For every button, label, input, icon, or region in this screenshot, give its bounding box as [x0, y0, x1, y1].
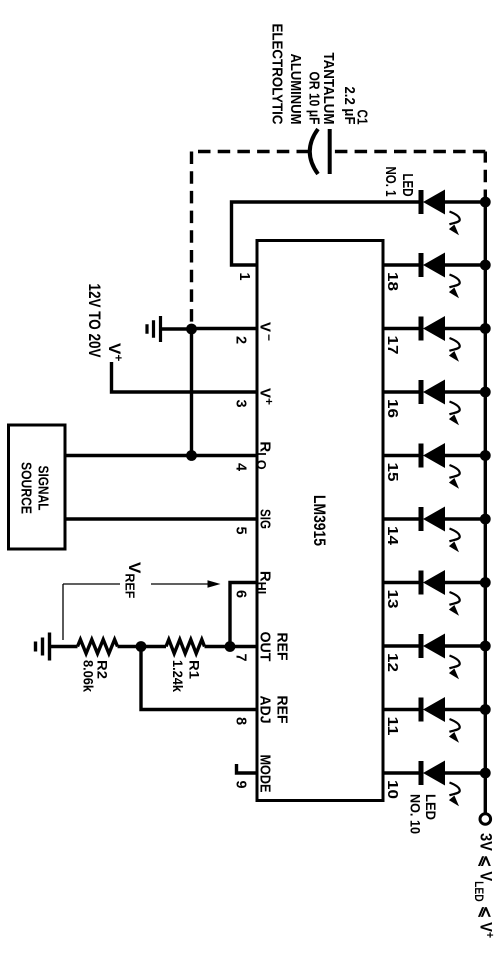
- label V+ supply: [105, 343, 126, 361]
- pin 11 number: [384, 717, 400, 736]
- svg-text:1.24k: 1.24k: [170, 660, 185, 692]
- LED D2: [421, 253, 485, 299]
- ground GND1 (V-): [147, 316, 192, 342]
- wire pin 4 RLO to signal source: [64, 454, 258, 457]
- label R2: [95, 660, 110, 679]
- pin 5 label SIG: [257, 509, 274, 529]
- LED D8: [421, 634, 485, 680]
- junction bus-LED2: [480, 260, 491, 271]
- pin 2 number: [233, 336, 249, 344]
- wire dashed bus to C1: [484, 152, 487, 203]
- svg-text:SOURCE: SOURCE: [18, 462, 35, 514]
- svg-text:SIG: SIG: [257, 509, 274, 529]
- LED D9: [421, 697, 485, 743]
- pin 5 number: [233, 527, 249, 535]
- label LED NO. 1: [382, 167, 415, 197]
- svg-text:16: 16: [384, 399, 400, 418]
- capacitor C1 top plate: [328, 129, 332, 174]
- resistor R1: [166, 640, 205, 654]
- svg-text:2: 2: [233, 336, 249, 344]
- svg-text:5: 5: [233, 527, 249, 535]
- wire R2 to ground: [50, 645, 78, 648]
- wire LED9 cathode to pin 11: [382, 708, 421, 711]
- pin 4 label RLO: [254, 441, 274, 469]
- label 3V <= VLED <= V+: [472, 833, 497, 938]
- svg-text:15: 15: [384, 463, 400, 482]
- pin 8 label REF ADJ: [257, 696, 291, 724]
- junction bus-LED7: [480, 577, 491, 588]
- wire LED4 cathode to pin 16: [382, 390, 421, 393]
- svg-text:3: 3: [233, 400, 249, 408]
- pin 12 number: [384, 653, 400, 672]
- svg-text:LED: LED: [423, 794, 439, 820]
- svg-text:LM3915: LM3915: [310, 495, 328, 546]
- svg-text:REF: REF: [274, 696, 291, 724]
- svg-text:ADJ: ADJ: [257, 696, 274, 724]
- pin 9 number: [233, 781, 249, 789]
- svg-text:ELECTROLYTIC: ELECTROLYTIC: [269, 24, 285, 125]
- wire LED7 cathode to pin 13: [382, 581, 421, 584]
- svg-text:10: 10: [384, 780, 400, 799]
- svg-text:R2: R2: [95, 660, 110, 679]
- wire junction to R2: [118, 645, 142, 648]
- svg-text:NO. 10: NO. 10: [408, 794, 424, 834]
- pin 6 label RHI: [254, 571, 274, 594]
- svg-text:9: 9: [233, 781, 249, 789]
- svg-text:8.06k: 8.06k: [81, 660, 96, 692]
- label VREF: [123, 562, 145, 599]
- pin 9 label MODE: [257, 755, 274, 793]
- wire dashed C1 bottom: [192, 150, 310, 153]
- LED D3: [421, 316, 485, 362]
- LED D7: [421, 570, 485, 616]
- pin 17 number: [384, 336, 400, 355]
- svg-text:11: 11: [384, 717, 400, 736]
- label R2 value 8.06k: [81, 660, 96, 692]
- LED D5: [421, 443, 485, 489]
- svg-text:ALUMINUM: ALUMINUM: [287, 54, 303, 125]
- wire dashed to V- ground node: [190, 152, 193, 330]
- wire LED3 cathode to pin 17: [382, 327, 421, 330]
- LED D10 (LED NO. 10): [421, 761, 485, 807]
- pin 6 number: [233, 590, 249, 598]
- svg-text:12V TO 20V: 12V TO 20V: [85, 284, 104, 359]
- IC U1 LM3915 body: [257, 241, 383, 801]
- resistor R2: [78, 640, 118, 654]
- svg-text:7: 7: [233, 654, 249, 662]
- pin 13 number: [384, 590, 400, 609]
- wire pin 8 REF ADJ: [141, 647, 257, 710]
- svg-text:6: 6: [233, 590, 249, 598]
- wire LED1 to pin 1: [232, 202, 421, 265]
- wire pin7 node to R1: [205, 645, 231, 648]
- wire LED5 cathode to pin 15: [382, 454, 421, 457]
- svg-text:8: 8: [233, 717, 249, 725]
- wire LED8 cathode to pin 12: [382, 644, 421, 647]
- wire dashed C1 top: [333, 150, 486, 153]
- node R1-R2 junction: [136, 641, 147, 652]
- LED D6: [421, 507, 485, 553]
- svg-text:4: 4: [233, 463, 249, 471]
- svg-text:MODE: MODE: [257, 755, 274, 793]
- wire pin 3 V+: [112, 362, 258, 392]
- junction bus-LED6: [480, 514, 491, 525]
- pin 10 number: [384, 780, 400, 799]
- IC U1 label LM3915: [310, 495, 328, 546]
- svg-text:OR 10 μF: OR 10 μF: [306, 72, 322, 125]
- svg-text:REF: REF: [274, 633, 291, 661]
- label 12V TO 20V: [85, 284, 104, 359]
- label C1 value block: [269, 24, 370, 125]
- pin 16 number: [384, 399, 400, 418]
- capacitor C1 bottom plate: [310, 129, 318, 174]
- junction bus-LED5: [480, 450, 491, 461]
- LED D1 (LED NO. 1): [421, 190, 485, 236]
- terminal V_LED: [480, 814, 491, 825]
- pin 3 label V+: [257, 388, 277, 405]
- pin 3 number: [233, 400, 249, 408]
- wire LED10 cathode to pin 10: [382, 771, 421, 774]
- label LED NO. 10: [408, 794, 440, 834]
- pin 15 number: [384, 463, 400, 482]
- svg-text:SIGNAL: SIGNAL: [35, 466, 52, 511]
- node REF OUT junction: [225, 641, 236, 652]
- wire pin 9 MODE stub: [237, 764, 258, 773]
- svg-text:13: 13: [384, 590, 400, 609]
- svg-text:OUT: OUT: [257, 632, 274, 662]
- LED D4: [421, 380, 485, 426]
- wire pin 6 RHI: [230, 583, 257, 647]
- svg-text:12: 12: [384, 653, 400, 672]
- svg-text:R1: R1: [187, 660, 202, 680]
- wire R1 to junction: [141, 645, 166, 648]
- svg-text:17: 17: [384, 336, 400, 355]
- junction bus-LED3: [480, 323, 491, 334]
- svg-text:LED: LED: [399, 174, 415, 197]
- pin 18 number: [384, 272, 400, 291]
- annotation VREF arrow: [63, 580, 221, 640]
- ground GND2 (R2): [36, 633, 50, 661]
- label R1 value 1.24k: [170, 660, 185, 692]
- wire pin 5 SIG to signal source: [64, 517, 258, 520]
- pin 7 label REF OUT: [257, 632, 291, 662]
- junction RLO node: [186, 450, 197, 461]
- wire V- node to RLO junction: [190, 329, 193, 456]
- svg-text:2.2 μF: 2.2 μF: [341, 87, 357, 125]
- pin 8 number: [233, 717, 249, 725]
- wire pin 7 REF OUT: [230, 645, 257, 648]
- pin 14 number: [384, 526, 400, 545]
- wire pin 2 V-: [192, 327, 258, 330]
- node V- ground junction: [186, 324, 197, 335]
- pin 7 number: [233, 654, 249, 662]
- svg-text:18: 18: [384, 272, 400, 291]
- svg-text:14: 14: [384, 526, 400, 545]
- signal source box: [9, 425, 66, 549]
- pin 4 number: [233, 463, 249, 471]
- junction bus-LED8: [480, 641, 491, 652]
- junction bus-LED9: [480, 704, 491, 715]
- pin 2 label V-: [257, 322, 277, 341]
- label R1: [187, 660, 202, 680]
- junction bus-LED10: [480, 768, 491, 779]
- label SIGNAL SOURCE: [18, 462, 52, 514]
- wire V_LED bus: [484, 202, 487, 814]
- svg-text:1: 1: [236, 273, 252, 281]
- junction bus-LED1: [480, 197, 491, 208]
- pin 1 number: [236, 273, 252, 281]
- wire LED6 cathode to pin 14: [382, 517, 421, 520]
- svg-text:NO. 1: NO. 1: [382, 167, 398, 197]
- junction bus-LED4: [480, 387, 491, 398]
- wire LED2 cathode to pin 18: [382, 263, 421, 266]
